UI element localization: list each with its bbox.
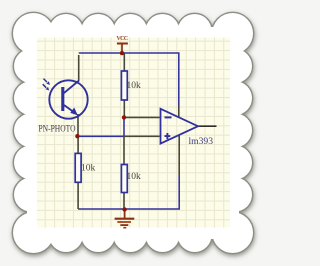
svg-text:10k: 10k <box>81 163 96 173</box>
svg-text:10k: 10k <box>127 172 142 182</box>
svg-text:10k: 10k <box>127 81 142 91</box>
svg-text:VCC: VCC <box>116 35 128 42</box>
svg-text:lm393: lm393 <box>189 136 214 147</box>
svg-text:PN-PHOTO: PN-PHOTO <box>39 124 76 135</box>
